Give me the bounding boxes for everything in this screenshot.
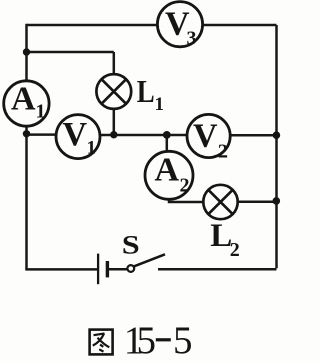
switch S blade [134, 254, 165, 266]
node A2 branch on main row [163, 131, 171, 139]
svg-text:V: V [63, 116, 88, 153]
wire battery to switch pivot [109, 268, 127, 271]
voltmeter V1 [56, 115, 100, 159]
svg-text:A: A [155, 152, 180, 189]
wire L1 branch vertical [113, 52, 116, 75]
wire L1 bottom to main node [113, 109, 116, 135]
battery short plate [106, 261, 109, 277]
wire left vertical lower [25, 134, 28, 270]
svg-text:A: A [11, 81, 36, 118]
lamp L1 [96, 74, 131, 109]
svg-text:1: 1 [155, 94, 165, 115]
caption hanzi TU (drawn) [90, 330, 113, 355]
svg-text:5: 5 [137, 319, 157, 361]
node L2 right on right wire [273, 197, 281, 205]
lamp L2 [203, 185, 237, 219]
ammeter A2 [145, 151, 193, 199]
wire left vertical upper [25, 24, 28, 81]
wire top-left horizontal [27, 24, 158, 27]
svg-text:2: 2 [180, 175, 190, 197]
node main row meets right wire [273, 131, 281, 139]
wire L2 to right wire [238, 201, 277, 204]
svg-text:3: 3 [187, 28, 197, 50]
switch S pivot [127, 265, 134, 272]
voltmeter V3 [157, 2, 202, 50]
ammeter A1 [4, 81, 49, 127]
wire top-right horizontal [203, 24, 277, 27]
wire main row middle segment [100, 134, 188, 137]
svg-text:V: V [193, 118, 218, 155]
node below A1 [23, 130, 30, 137]
wire right vertical [275, 25, 278, 268]
svg-text:S: S [122, 231, 140, 260]
node L1 bottom on main row [110, 131, 117, 138]
wire bottom left segment [25, 268, 97, 271]
wire A2 branch vertical [166, 135, 169, 152]
voltmeter V2 [187, 114, 230, 162]
svg-text:2: 2 [230, 239, 240, 261]
wire main row left segment [27, 133, 57, 136]
wire bottom right segment [158, 268, 277, 271]
svg-text:1: 1 [87, 138, 97, 159]
node junction left L1 branch [23, 48, 30, 55]
wire main row right segment [230, 134, 277, 137]
wire L1 branch horizontal [27, 51, 114, 54]
svg-text:5: 5 [173, 319, 193, 361]
svg-text:1: 1 [36, 101, 46, 123]
label L1 [137, 75, 164, 115]
svg-text:L: L [137, 75, 155, 110]
wire A2 bottom to L2 row [169, 199, 204, 202]
label L2 [210, 218, 240, 261]
svg-text:2: 2 [218, 140, 228, 162]
battery long plate [97, 254, 99, 285]
caption dash [156, 338, 171, 341]
wire A1 to main node [25, 126, 28, 135]
